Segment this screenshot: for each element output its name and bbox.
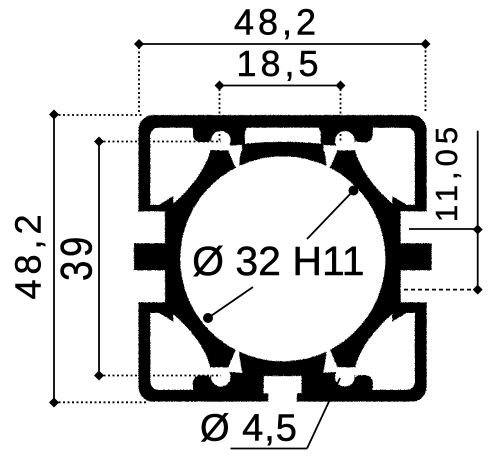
svg-text:39: 39: [51, 233, 101, 281]
svg-text:Ø 32 H11: Ø 32 H11: [192, 238, 364, 284]
svg-text:11,05: 11,05: [429, 122, 464, 222]
svg-text:48,2: 48,2: [8, 209, 49, 299]
svg-text:Ø 4,5: Ø 4,5: [200, 408, 298, 450]
svg-text:48,2: 48,2: [234, 2, 320, 43]
svg-text:18,5: 18,5: [236, 43, 322, 84]
